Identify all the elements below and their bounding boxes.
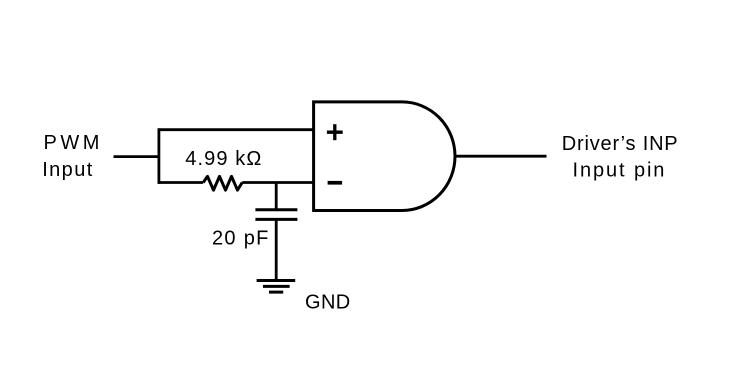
resistor 4.99 kOhm xyxy=(203,176,242,190)
wire: bottom branch, left lead of resistor xyxy=(159,181,203,184)
comparator U1 body xyxy=(314,102,455,211)
wire: capacitor upper lead xyxy=(275,183,278,210)
svg-text:Input: Input xyxy=(42,159,93,181)
wire: top branch to + input xyxy=(159,128,314,131)
wire: resistor to - input xyxy=(242,181,313,184)
svg-text:Driver’s INP: Driver’s INP xyxy=(562,133,679,155)
pin label: + noninverting input xyxy=(327,124,343,140)
svg-text:4.99 kΩ: 4.99 kΩ xyxy=(185,148,262,170)
ground xyxy=(257,281,296,293)
pin label: - inverting input xyxy=(328,181,343,185)
svg-text:PWM: PWM xyxy=(44,132,103,154)
wire: PWM input lead xyxy=(114,155,159,158)
svg-text:20 pF: 20 pF xyxy=(212,228,270,250)
capacitor 20 pF xyxy=(255,210,297,220)
wire: capacitor lower lead xyxy=(275,219,278,280)
wire: output lead xyxy=(455,155,546,158)
wire: input tie vertical segment xyxy=(157,128,160,184)
svg-text:GND: GND xyxy=(305,291,351,313)
svg-text:Input pin: Input pin xyxy=(573,160,667,182)
